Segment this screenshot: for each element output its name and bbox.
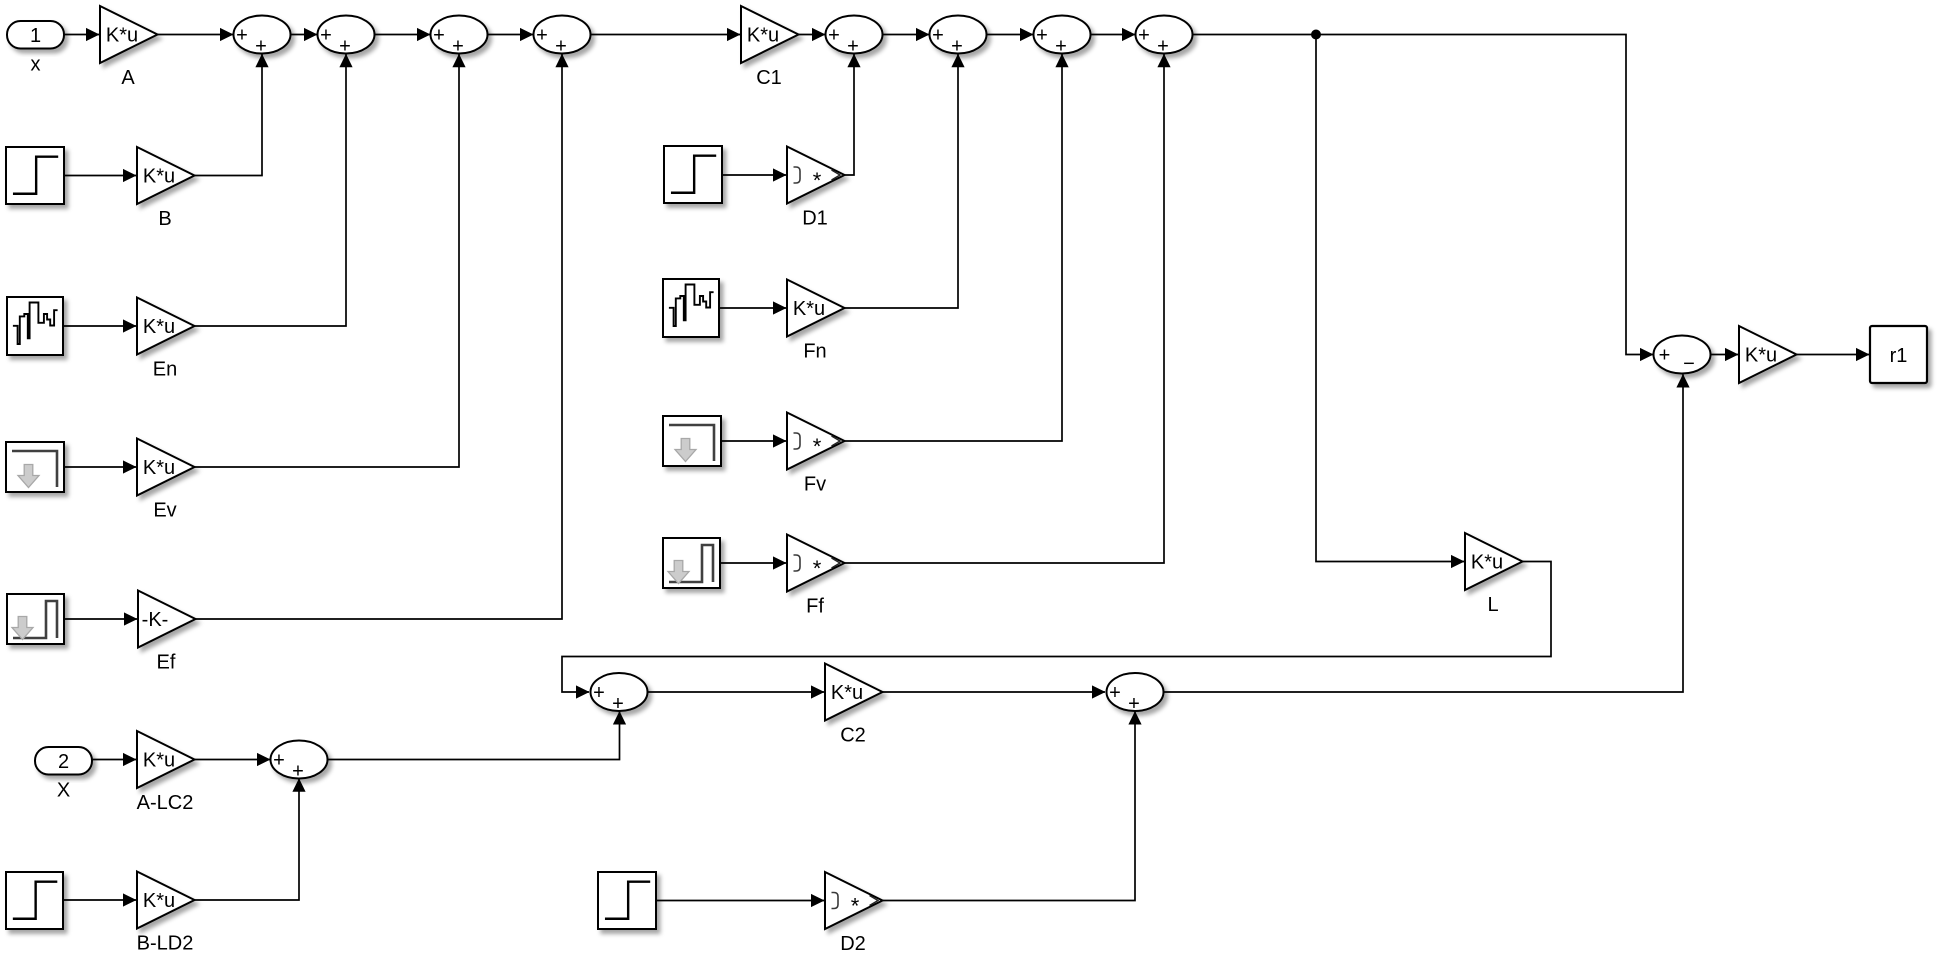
gain C1 — [741, 6, 799, 89]
final sum fs (plus minus) — [1654, 336, 1711, 376]
wire s7 to s8 — [1091, 28, 1136, 41]
step source for B-LD2 — [6, 872, 63, 929]
svg-text:x: x — [31, 54, 41, 76]
sum s6 — [930, 16, 987, 58]
wire step to gain B-LD2 — [63, 893, 137, 906]
svg-text:+: + — [932, 25, 944, 47]
wire source to gain Ev — [64, 460, 137, 473]
sum s7 — [1034, 16, 1091, 58]
svg-text:Fv: Fv — [804, 474, 826, 496]
wire s5 to s6 — [883, 28, 930, 41]
wire noise to gain En — [63, 319, 137, 332]
file source for Ff — [663, 538, 720, 588]
wire gain En to s2 bottom — [195, 54, 353, 326]
svg-text:+: + — [255, 35, 267, 57]
gain Ev — [137, 439, 195, 522]
step source for B — [6, 147, 64, 204]
svg-text:A-LC2: A-LC2 — [137, 792, 194, 814]
sum s5 — [826, 16, 883, 58]
svg-text:+: + — [1157, 35, 1169, 57]
gain D1 (matrix) — [787, 147, 845, 230]
svg-text:*: * — [813, 434, 822, 459]
wire gain B to s1 bottom — [195, 54, 269, 176]
noise source for Fn — [663, 279, 719, 337]
step source for D2 — [598, 872, 656, 929]
sum s2 — [318, 16, 375, 58]
svg-text:B-LD2: B-LD2 — [137, 933, 194, 955]
svg-text:+: + — [536, 25, 548, 47]
svg-text:K*u: K*u — [106, 25, 138, 47]
svg-text:+: + — [1128, 693, 1140, 715]
svg-text:En: En — [153, 359, 177, 381]
svg-text:+: + — [1036, 25, 1048, 47]
wire B-LD2 to sum bl bottom — [195, 778, 306, 900]
svg-text:K*u: K*u — [831, 682, 863, 704]
svg-text:+: + — [1109, 682, 1121, 704]
gain B — [137, 147, 195, 230]
svg-text:C2: C2 — [840, 725, 866, 747]
svg-text:+: + — [1055, 35, 1067, 57]
svg-text:+: + — [339, 35, 351, 57]
wire gain Ev to s3 bottom — [195, 54, 466, 467]
wire C1 to sum s5 — [799, 28, 826, 41]
svg-text:-K-: -K- — [142, 609, 169, 631]
svg-text:X: X — [57, 780, 70, 802]
gain Ff (matrix) — [787, 535, 845, 618]
svg-text:r1: r1 — [1890, 345, 1908, 367]
gain Fn — [787, 280, 845, 363]
outport r1 — [1870, 326, 1927, 383]
final gain K*u — [1739, 326, 1797, 383]
wire gain Ff to s8 bottom — [845, 54, 1171, 563]
svg-text:B: B — [158, 208, 171, 230]
wire noise to gain Fn — [719, 301, 787, 314]
svg-text:A: A — [121, 67, 135, 89]
svg-text:K*u: K*u — [143, 316, 175, 338]
sum s4 — [534, 16, 591, 58]
svg-text:+: + — [555, 35, 567, 57]
wire A-LC2 to sum bl — [195, 753, 271, 766]
gain Ef — [138, 591, 196, 674]
wire inport2 to gain A-LC2 — [92, 753, 137, 766]
svg-text:K*u: K*u — [1745, 345, 1777, 367]
wire gain Fn to s6 bottom — [845, 54, 965, 308]
workspace source for Ev — [6, 442, 64, 492]
gain Fv (matrix) — [787, 413, 845, 496]
gain B-LD2 — [137, 872, 195, 955]
svg-text:+: + — [1659, 345, 1671, 367]
svg-text:K*u: K*u — [143, 750, 175, 772]
svg-text:K*u: K*u — [143, 166, 175, 188]
svg-text:+: + — [433, 25, 445, 47]
wire s4 to gain C1 — [591, 28, 741, 41]
svg-text:2: 2 — [58, 751, 69, 773]
svg-text:K*u: K*u — [793, 298, 825, 320]
wire gain Fv to s7 bottom — [845, 54, 1069, 441]
wire gain A to sum s1 — [158, 28, 234, 41]
sum bl — [271, 741, 328, 783]
svg-text:+: + — [320, 25, 332, 47]
svg-text:+: + — [236, 25, 248, 47]
wire s8 to final sum (right then down) — [1193, 35, 1654, 362]
inport 2 (X) — [35, 747, 92, 802]
gain C2 — [825, 664, 883, 747]
wire step to gain D1 — [722, 168, 787, 181]
svg-text:Ef: Ef — [157, 652, 176, 674]
wire source to gain Ef — [64, 612, 138, 625]
branch node dot — [1311, 30, 1321, 40]
wire source to gain Ff — [720, 556, 787, 569]
svg-text:+: + — [612, 693, 624, 715]
wire s1 to s2 — [291, 28, 318, 41]
workspace source for Fv — [663, 416, 721, 466]
svg-text:+: + — [452, 35, 464, 57]
inport 1 (x) — [7, 21, 64, 76]
wire s3 to s4 — [488, 28, 534, 41]
wire sum bl to sum b1 bottom — [328, 711, 627, 760]
svg-text:K*u: K*u — [1471, 552, 1503, 574]
svg-text:1: 1 — [30, 25, 41, 47]
svg-text:+: + — [828, 25, 840, 47]
svg-text:+: + — [292, 760, 304, 782]
file source for Ef — [7, 594, 64, 644]
svg-text:Fn: Fn — [803, 341, 826, 363]
svg-text:*: * — [851, 894, 860, 919]
wire gain D1 to s5 bottom — [845, 54, 861, 175]
sum b1 — [591, 673, 648, 715]
wire step to gain B — [64, 169, 137, 182]
svg-text:L: L — [1487, 594, 1498, 616]
svg-text:+: + — [951, 35, 963, 57]
svg-text:+: + — [273, 750, 285, 772]
wire C2 to sum b2 — [883, 685, 1106, 698]
wire branch to gain L — [1316, 35, 1465, 569]
sum s8 — [1136, 16, 1193, 58]
noise source for En — [7, 297, 63, 355]
wire gain Ef to s4 bottom — [196, 54, 569, 619]
svg-text:Ff: Ff — [806, 596, 824, 618]
wire source to gain Fv — [721, 434, 787, 447]
wire fs to final gain — [1711, 348, 1739, 361]
step source for D1 — [664, 146, 722, 203]
wire gain L to sum b1 (wrap around) — [562, 562, 1551, 699]
gain D2 (matrix) — [825, 872, 883, 955]
wire gain D2 to sum b2 bottom — [883, 711, 1142, 901]
svg-text:*: * — [813, 556, 822, 581]
sum s3 — [431, 16, 488, 58]
svg-text:+: + — [593, 682, 605, 704]
svg-text:K*u: K*u — [143, 890, 175, 912]
svg-text:Ev: Ev — [153, 500, 176, 522]
svg-text:+: + — [847, 35, 859, 57]
svg-text:C1: C1 — [756, 67, 782, 89]
gain A — [100, 6, 158, 89]
sum s1 — [234, 16, 291, 58]
svg-text:D2: D2 — [840, 933, 866, 955]
svg-text:K*u: K*u — [747, 25, 779, 47]
wire sum b2 to final sum bottom — [1164, 374, 1690, 692]
gain A-LC2 — [137, 731, 195, 814]
wire final gain to outport r1 — [1797, 348, 1870, 361]
svg-text:+: + — [1138, 25, 1150, 47]
wire b1 to gain C2 — [648, 685, 825, 698]
gain L — [1465, 533, 1523, 616]
sum b2 — [1107, 673, 1164, 715]
svg-text:K*u: K*u — [143, 457, 175, 479]
gain En — [137, 298, 195, 381]
svg-text:D1: D1 — [802, 208, 828, 230]
wire s2 to s3 — [375, 28, 431, 41]
svg-text:*: * — [813, 168, 822, 193]
wire s6 to s7 — [987, 28, 1034, 41]
wire inport1 to gain A — [64, 28, 100, 41]
svg-text:−: − — [1683, 353, 1695, 375]
wire step to gain D2 — [656, 894, 825, 907]
